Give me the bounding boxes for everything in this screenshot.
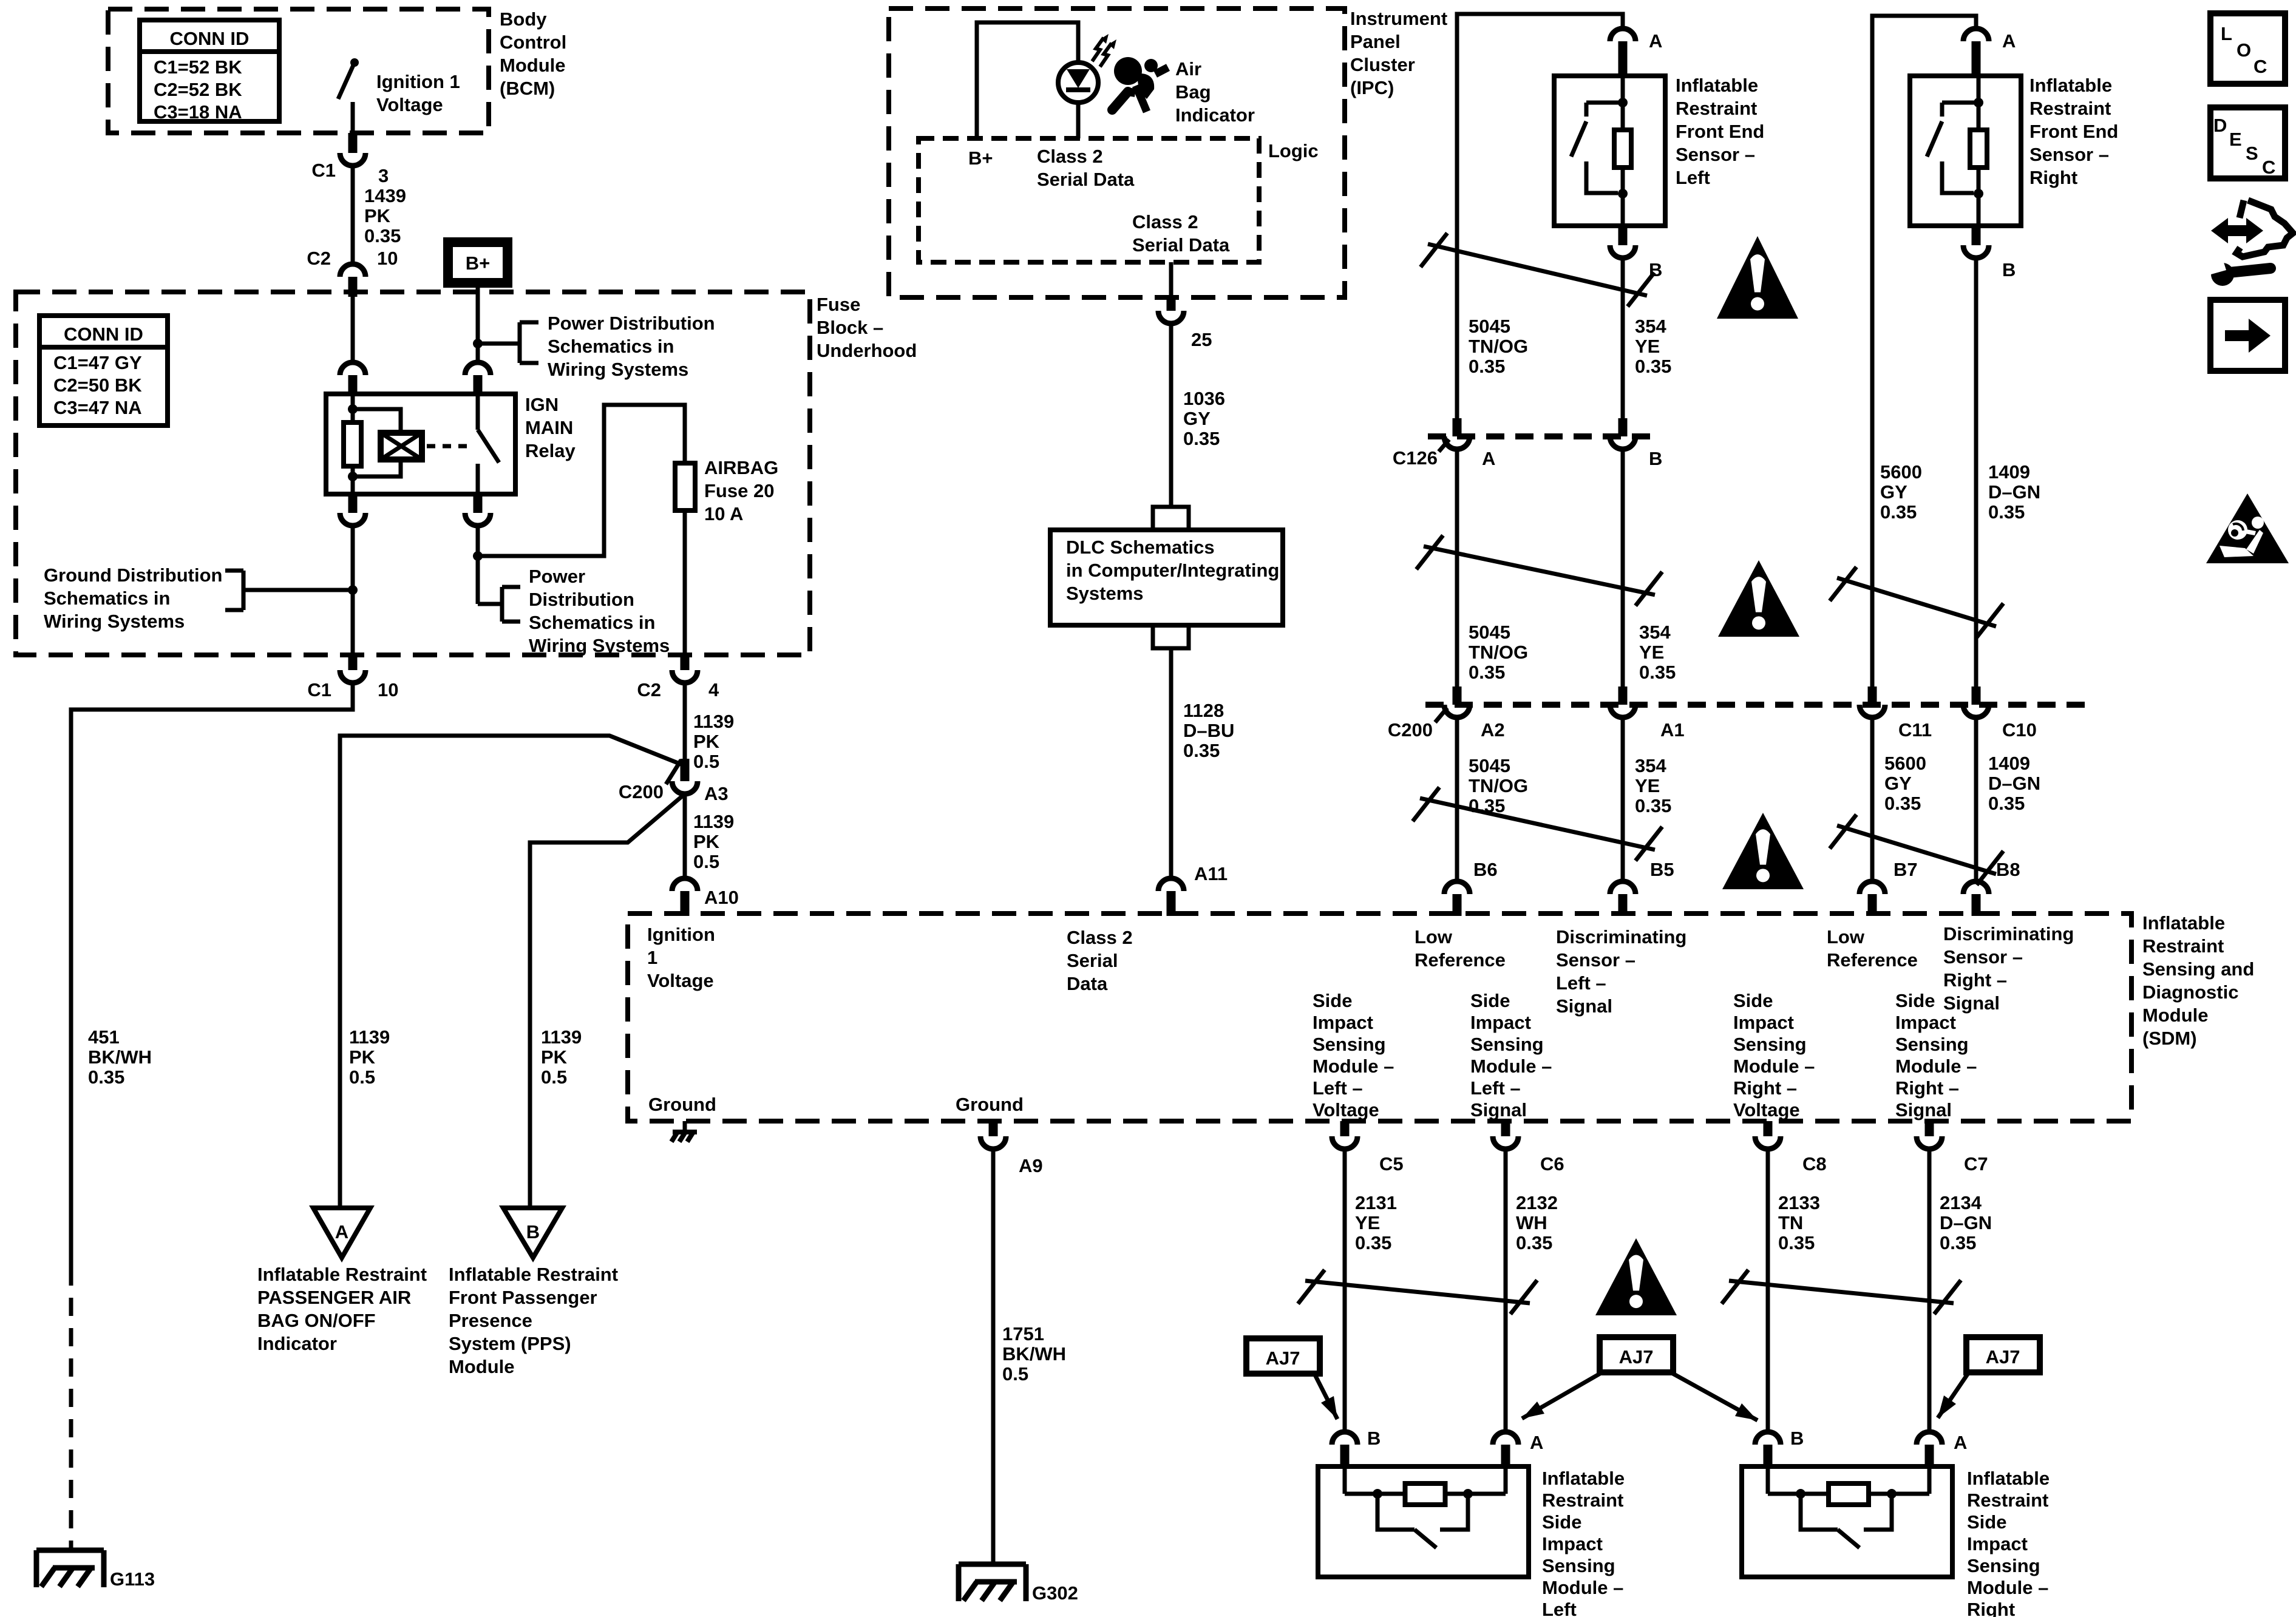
svg-text:GY: GY — [1183, 408, 1211, 429]
svg-text:in Computer/Integrating: in Computer/Integrating — [1066, 560, 1279, 581]
svg-text:Presence: Presence — [449, 1310, 532, 1331]
wire: 2133 TN 0.35 (C8 to module B) — [1766, 1149, 1770, 1431]
fuse: AIRBAG Fuse 20 10A — [675, 463, 695, 510]
svg-text:BK/WH: BK/WH — [1002, 1343, 1066, 1364]
svg-text:1139: 1139 — [693, 711, 734, 732]
svg-text:Left –: Left – — [1556, 972, 1606, 994]
svg-text:Schematics in: Schematics in — [548, 336, 674, 357]
svg-text:0.5: 0.5 — [693, 751, 719, 772]
svg-text:Right: Right — [2029, 167, 2077, 188]
svg-text:Voltage: Voltage — [376, 94, 443, 115]
svg-text:Right –: Right – — [1943, 969, 2007, 991]
label: 1409 D-GN 0.35 (upper) — [1988, 461, 2040, 523]
label C1 — [311, 160, 336, 181]
label: Inflatable Restraint PASSENGER AIR BAG ON/OFF Indicator — [257, 1264, 427, 1354]
label: 1751 BK/WH 0.5 — [1002, 1323, 1066, 1385]
label: Ground (SDM A9) — [956, 1094, 1024, 1115]
svg-text:0.5: 0.5 — [1002, 1363, 1028, 1385]
label: Ground Distribution Schematics in Wiring Systems — [44, 564, 222, 632]
label: Power Distribution Schematics in Wiring Systems (lower) — [529, 566, 670, 656]
svg-text:Restraint: Restraint — [1676, 98, 1757, 119]
label C200 (row) with leader — [1388, 708, 1447, 741]
label: Inflatable Restraint Front Passenger Presence System (PPS) Module — [449, 1264, 618, 1377]
svg-text:A9: A9 — [1019, 1155, 1043, 1176]
wire: 1036 GY 0.35 to DLC — [1169, 324, 1173, 507]
label: 1139 PK 0.5 (PPS wire) — [541, 1026, 582, 1088]
label A (right module) — [1954, 1432, 1967, 1453]
svg-text:5600: 5600 — [1884, 753, 1926, 774]
connector B of right side impact module — [1755, 1432, 1781, 1468]
svg-text:Instrument: Instrument — [1350, 8, 1447, 29]
in-line connector C200 (dashed row) — [1425, 702, 2088, 708]
label: 5045 TN/OG 0.35 (above C126) — [1469, 316, 1528, 377]
connector C7 (SDM bottom) — [1917, 1121, 1942, 1149]
svg-text:GY: GY — [1884, 773, 1912, 794]
svg-text:Left –: Left – — [1313, 1077, 1363, 1099]
connector C1 pin 10 (fuse block bottom left) — [340, 655, 365, 683]
splice callout AJ7 (middle) — [1522, 1337, 1758, 1420]
label pin A2 — [1481, 719, 1505, 741]
svg-text:354: 354 — [1639, 622, 1671, 643]
svg-text:C3=18 NA: C3=18 NA — [154, 101, 242, 123]
svg-text:Inflatable: Inflatable — [1967, 1468, 2050, 1489]
svg-text:Systems: Systems — [1066, 583, 1144, 604]
svg-text:A: A — [1954, 1432, 1967, 1453]
label: 1139 PK 0.5 (below C200) — [693, 811, 734, 872]
connector B of left front end sensor — [1610, 226, 1635, 258]
connector C200 pin A3 — [672, 759, 698, 794]
svg-text:Impact: Impact — [1470, 1012, 1531, 1033]
interrupt symbol (left module wires) — [1298, 1270, 1537, 1314]
icon: hand with arrows and wrench — [2209, 200, 2293, 286]
label: 1128 D-BU 0.35 — [1183, 700, 1234, 761]
svg-text:0.35: 0.35 — [1355, 1232, 1391, 1253]
label pin C11 — [1898, 719, 1932, 741]
svg-text:0.35: 0.35 — [1183, 428, 1220, 449]
svg-text:0.35: 0.35 — [1884, 793, 1921, 814]
svg-text:Discriminating: Discriminating — [1943, 923, 2074, 944]
svg-text:C1=47 GY: C1=47 GY — [53, 352, 142, 373]
wire branch to PPS module — [530, 794, 685, 1208]
reference pointer: Power Distribution Schematics in Wiring Systems (top) — [478, 322, 538, 363]
svg-text:Reference: Reference — [1827, 949, 1918, 971]
svg-text:Ground Distribution: Ground Distribution — [44, 564, 222, 586]
svg-text:PK: PK — [349, 1046, 376, 1068]
svg-text:TN/OG: TN/OG — [1469, 775, 1528, 796]
connector: relay output (bottom right) — [465, 494, 491, 526]
label C126 with leader — [1393, 439, 1449, 469]
connector A10 into SDM — [672, 878, 698, 916]
component: Inflatable Restraint Side Impact Sensing Module - Left — [1318, 1466, 1529, 1577]
svg-text:B+: B+ — [968, 147, 993, 169]
label C6 — [1540, 1153, 1564, 1175]
svg-text:0.35: 0.35 — [1940, 1232, 1976, 1253]
svg-text:5600: 5600 — [1880, 461, 1922, 483]
svg-text:A: A — [1649, 30, 1662, 52]
wire: 1409 from C200-C10 to SDM B8 — [1974, 717, 1978, 881]
svg-text:Data: Data — [1067, 973, 1108, 994]
svg-text:Ground: Ground — [956, 1094, 1024, 1115]
wire branch to passenger airbag indicator — [340, 736, 682, 1208]
wire: 354 from C126-B to C200-A1 — [1621, 449, 1625, 686]
junction dot on B+ wire — [473, 339, 483, 348]
label: Class 2 Serial Data (logic top) — [1037, 146, 1135, 190]
svg-text:Bag: Bag — [1175, 81, 1211, 103]
svg-text:Inflatable Restraint: Inflatable Restraint — [257, 1264, 427, 1285]
svg-text:Right –: Right – — [1733, 1077, 1797, 1099]
svg-text:D–GN: D–GN — [1988, 481, 2040, 503]
interrupt symbol (between C126 and C200) — [1416, 535, 1662, 606]
icon: LOC box — [2210, 13, 2285, 84]
svg-text:Relay: Relay — [525, 440, 576, 461]
connector A of right front end sensor — [1963, 29, 1989, 77]
svg-text:MAIN: MAIN — [525, 417, 573, 438]
connector-ID table CONN ID (BCM C1/C2/C3) — [140, 20, 279, 123]
label pin 3 — [378, 165, 389, 186]
svg-text:1409: 1409 — [1988, 461, 2030, 483]
relay coil bracket — [353, 409, 401, 476]
LED light arrows — [1092, 34, 1116, 67]
svg-text:Side: Side — [1313, 990, 1352, 1011]
svg-text:WH: WH — [1516, 1212, 1547, 1233]
label C2 (bottom) — [637, 679, 661, 700]
svg-text:AJ7: AJ7 — [1266, 1347, 1300, 1369]
relay coil wire and junctions — [348, 394, 358, 494]
svg-text:B6: B6 — [1473, 859, 1498, 880]
in-line connector C126 (dashed) — [1428, 433, 1653, 439]
wire: 1139 PK 0.5 from C200 to SDM A10 — [683, 794, 687, 878]
svg-text:C: C — [2254, 56, 2267, 77]
label B8 — [1996, 859, 2020, 880]
svg-text:L: L — [2221, 23, 2232, 44]
component: Inflatable Restraint Side Impact Sensing Module - Right — [1742, 1466, 1952, 1577]
svg-text:Sensing: Sensing — [1967, 1555, 2040, 1576]
svg-text:0.35: 0.35 — [1988, 501, 2025, 523]
svg-text:B+: B+ — [466, 253, 491, 274]
svg-text:Indicator: Indicator — [257, 1333, 337, 1354]
svg-text:C200: C200 — [1388, 719, 1433, 741]
svg-text:BAG ON/OFF: BAG ON/OFF — [257, 1310, 376, 1331]
label: 2131 YE 0.35 — [1355, 1192, 1397, 1253]
svg-text:0.35: 0.35 — [364, 225, 401, 246]
connector B of left side impact module — [1332, 1432, 1357, 1468]
svg-text:Impact: Impact — [1733, 1012, 1794, 1033]
label: 451 BK/WH 0.35 — [88, 1026, 152, 1088]
reference pointer: Power Distribution Schematics in Wiring Systems (lower) — [478, 587, 520, 622]
svg-text:0.35: 0.35 — [1469, 356, 1505, 377]
label A10 — [704, 887, 739, 908]
splice callout AJ7 (left) — [1246, 1338, 1337, 1419]
interrupt symbol (right module wires) — [1722, 1270, 1961, 1314]
svg-text:C5: C5 — [1379, 1153, 1404, 1175]
splice callout AJ7 (right) — [1938, 1337, 2040, 1418]
svg-text:0.5: 0.5 — [349, 1066, 375, 1088]
svg-text:D–GN: D–GN — [1940, 1212, 1992, 1233]
svg-text:Front End: Front End — [1676, 121, 1764, 142]
svg-text:0.5: 0.5 — [541, 1066, 567, 1088]
svg-text:C1: C1 — [307, 679, 331, 700]
label A (left module) — [1530, 1432, 1543, 1453]
wire: 1409 D-GN from sensor B down — [1974, 258, 1978, 686]
svg-text:DLC Schematics: DLC Schematics — [1066, 537, 1215, 558]
connector: relay contact terminal (top right) — [465, 362, 491, 395]
wire: 1139 PK 0.5 from C2 to C200 — [683, 683, 687, 759]
svg-text:(BCM): (BCM) — [500, 78, 555, 99]
DLC schematics box — [1050, 530, 1283, 625]
svg-text:Impact: Impact — [1542, 1533, 1603, 1554]
svg-text:Inflatable: Inflatable — [2029, 75, 2112, 96]
svg-text:Module –: Module – — [1895, 1056, 1977, 1077]
ground G113 — [36, 1550, 104, 1587]
indicator LED circle with diode — [1058, 63, 1098, 103]
svg-text:354: 354 — [1635, 316, 1666, 337]
svg-text:Logic: Logic — [1268, 140, 1319, 161]
svg-text:Signal: Signal — [1895, 1099, 1952, 1120]
connector B7 into SDM — [1860, 881, 1885, 916]
relay box: IGN MAIN Relay — [326, 394, 515, 494]
svg-text:E: E — [2229, 129, 2242, 150]
svg-text:2132: 2132 — [1516, 1192, 1558, 1213]
svg-text:Power: Power — [529, 566, 585, 587]
label B (right sensor) — [2002, 259, 2016, 280]
svg-text:C2=52 BK: C2=52 BK — [154, 79, 242, 100]
dashed actuator linkage — [427, 444, 469, 449]
svg-text:Power Distribution: Power Distribution — [548, 313, 715, 334]
label: 1139 PK 0.5 (above C200) — [693, 711, 734, 772]
svg-text:Side: Side — [1967, 1511, 2006, 1533]
svg-text:A1: A1 — [1660, 719, 1685, 741]
svg-text:C11: C11 — [1898, 719, 1932, 741]
switch: relay contact — [478, 394, 499, 494]
label: 354 YE 0.35 (below C126) — [1639, 622, 1676, 683]
svg-text:Sensing: Sensing — [1733, 1034, 1807, 1055]
svg-text:G113: G113 — [110, 1568, 155, 1590]
svg-text:Module: Module — [500, 55, 566, 76]
svg-text:354: 354 — [1635, 755, 1666, 776]
resistor: relay coil element — [344, 422, 361, 466]
svg-text:Fuse: Fuse — [817, 294, 860, 315]
connector C2 pin 10 (into Fuse Block) — [340, 264, 365, 297]
svg-text:A3: A3 — [704, 783, 729, 804]
svg-text:3: 3 — [378, 165, 389, 186]
label: 1036 GY 0.35 — [1183, 388, 1225, 449]
interrupt symbol (left pair above SDM) — [1413, 787, 1662, 861]
label: Ground (SDM left) — [648, 1094, 716, 1115]
svg-text:10 A: 10 A — [704, 503, 743, 524]
svg-text:Panel: Panel — [1350, 31, 1401, 52]
svg-text:B: B — [2002, 259, 2016, 280]
label: 1439 PK 0.35 — [364, 185, 406, 246]
svg-text:Wiring Systems: Wiring Systems — [44, 611, 185, 632]
svg-text:Sensor –: Sensor – — [2029, 144, 2109, 165]
module box: Fuse Block - Underhood, dashed outline — [16, 292, 810, 655]
label A11 — [1194, 863, 1228, 884]
svg-text:Class 2: Class 2 — [1037, 146, 1103, 167]
svg-text:0.5: 0.5 — [693, 851, 719, 872]
svg-text:Inflatable: Inflatable — [1676, 75, 1758, 96]
label: Inflatable Restraint Front End Sensor - Right — [2029, 75, 2118, 188]
interrupt symbol (right sensor wires) — [1830, 567, 2003, 637]
label: DLC Schematics in Computer/Integrating Systems — [1066, 537, 1279, 604]
svg-text:5045: 5045 — [1469, 622, 1510, 643]
label: Side Impact Sensing Module - Right - Voltage (pin C8) — [1733, 990, 1815, 1120]
svg-text:Sensing: Sensing — [1895, 1034, 1969, 1055]
connector B6 into SDM — [1444, 881, 1470, 916]
svg-text:Body: Body — [500, 8, 547, 30]
svg-text:Side: Side — [1542, 1511, 1581, 1533]
svg-text:Underhood: Underhood — [817, 340, 917, 361]
svg-text:1139: 1139 — [693, 811, 734, 832]
label: Ignition 1 Voltage — [376, 71, 460, 115]
svg-text:1439: 1439 — [364, 185, 406, 206]
svg-text:Side: Side — [1470, 990, 1510, 1011]
label A (left sensor) — [1649, 30, 1662, 52]
label B (right module) — [1790, 1428, 1804, 1449]
svg-text:TN/OG: TN/OG — [1469, 336, 1528, 357]
svg-text:Module –: Module – — [1542, 1577, 1623, 1598]
solenoid X-box of relay — [381, 433, 422, 459]
svg-text:5045: 5045 — [1469, 316, 1510, 337]
svg-text:C126: C126 — [1393, 447, 1438, 469]
off-page connector triangle B — [503, 1208, 562, 1258]
svg-text:25: 25 — [1191, 329, 1212, 350]
svg-text:Module –: Module – — [1733, 1056, 1815, 1077]
svg-text:Fuse 20: Fuse 20 — [704, 480, 774, 501]
label: AIRBAG Fuse 20 10 A — [704, 457, 778, 524]
wire: fuse output to fuse block edge — [683, 510, 687, 655]
svg-text:1128: 1128 — [1183, 700, 1224, 721]
svg-text:Indicator: Indicator — [1175, 104, 1255, 126]
label pin A (C126) — [1482, 448, 1495, 469]
wire: relay output to AIRBAG fuse riser — [473, 405, 685, 604]
svg-text:C10: C10 — [2002, 719, 2037, 741]
svg-text:YE: YE — [1635, 775, 1660, 796]
label: Side Impact Sensing Module - Left - Signal (pin C6) — [1470, 990, 1552, 1120]
svg-text:Left: Left — [1676, 167, 1710, 188]
module box: Inflatable Restraint Sensing and Diagnostic Module (SDM) — [628, 914, 2131, 1121]
svg-text:A: A — [335, 1221, 348, 1242]
label C1 (bottom) — [307, 679, 331, 700]
connector C200 pin A1 — [1610, 686, 1635, 717]
svg-text:A: A — [1482, 448, 1495, 469]
svg-text:1139: 1139 — [541, 1026, 582, 1048]
label G113 — [110, 1568, 155, 1590]
svg-text:C8: C8 — [1802, 1153, 1827, 1175]
label: Low Reference (SDM pin B7) — [1827, 926, 1918, 971]
label: 1139 PK 0.5 (indicator wire) — [349, 1026, 390, 1088]
svg-text:0.35: 0.35 — [1778, 1232, 1815, 1253]
svg-text:O: O — [2237, 39, 2251, 61]
svg-text:Voltage: Voltage — [647, 970, 714, 991]
svg-text:Ignition: Ignition — [647, 924, 715, 945]
logic box (dashed) inside IPC — [919, 138, 1259, 262]
svg-text:System (PPS): System (PPS) — [449, 1333, 571, 1354]
connector A of right side impact module — [1917, 1432, 1942, 1468]
label: Inflatable Restraint Side Impact Sensing Module - Right — [1967, 1468, 2050, 1617]
svg-text:Control: Control — [500, 32, 566, 53]
module box: Body Control Module (BCM), dashed outline — [108, 9, 489, 133]
ground G302 — [959, 1564, 1026, 1601]
svg-text:GY: GY — [1880, 481, 1907, 503]
svg-text:D–BU: D–BU — [1183, 720, 1234, 741]
svg-text:Inflatable Restraint: Inflatable Restraint — [449, 1264, 618, 1285]
svg-text:B7: B7 — [1894, 859, 1918, 880]
svg-text:Right –: Right – — [1895, 1077, 1959, 1099]
connector C200 pin A2 — [1444, 686, 1470, 717]
svg-text:Block –: Block – — [817, 317, 883, 338]
svg-text:Sensor –: Sensor – — [1943, 946, 2023, 968]
label B6 — [1473, 859, 1498, 880]
connector C200 pin C10 — [1963, 686, 1989, 717]
warning triangle (above SDM) — [1722, 813, 1804, 889]
label B5 — [1650, 859, 1674, 880]
svg-text:Discriminating: Discriminating — [1556, 926, 1686, 947]
svg-text:(IPC): (IPC) — [1350, 77, 1394, 98]
label A (right sensor) — [2002, 30, 2016, 52]
interrupt symbol (left sensor wires) — [1421, 233, 1654, 307]
label B7 — [1894, 859, 1918, 880]
module box: Instrument Panel Cluster (IPC), dashed outline — [889, 8, 1345, 297]
svg-text:Inflatable: Inflatable — [1542, 1468, 1625, 1489]
svg-text:2133: 2133 — [1778, 1192, 1820, 1213]
svg-text:Module: Module — [2142, 1005, 2209, 1026]
svg-text:Cluster: Cluster — [1350, 54, 1415, 75]
label pin 10 (bottom) — [378, 679, 398, 700]
label: Side Impact Sensing Module - Right - Signal (pin C7) — [1895, 990, 1977, 1120]
svg-text:Sensor –: Sensor – — [1676, 144, 1755, 165]
svg-text:CONN ID: CONN ID — [170, 28, 250, 49]
svg-text:B: B — [526, 1221, 540, 1242]
svg-text:B: B — [1790, 1428, 1804, 1449]
label: Inflatable Restraint Side Impact Sensing Module - Left — [1542, 1468, 1625, 1617]
wire: sensor-right harness bracket — [1872, 16, 1976, 686]
svg-text:Restraint: Restraint — [1542, 1490, 1623, 1511]
label: Logic — [1268, 140, 1319, 161]
label: Power Distribution Schematics in Wiring Systems (top) — [548, 313, 715, 380]
label: 2134 D-GN 0.35 — [1940, 1192, 1992, 1253]
svg-text:Module –: Module – — [1470, 1056, 1552, 1077]
svg-text:Class 2: Class 2 — [1132, 211, 1198, 232]
svg-text:Left: Left — [1542, 1599, 1577, 1617]
svg-text:G302: G302 — [1032, 1582, 1078, 1604]
svg-text:Side: Side — [1895, 990, 1935, 1011]
svg-text:Ignition 1: Ignition 1 — [376, 71, 460, 92]
wire: 2134 D-GN 0.35 (C7 to module A) — [1927, 1149, 1932, 1431]
wire: 1439 into relay coil — [351, 297, 355, 362]
label: Ignition 1 Voltage (SDM pin A10) — [647, 924, 715, 991]
connector A9 (SDM ground) — [980, 1121, 1006, 1149]
svg-text:Sensing: Sensing — [1313, 1034, 1386, 1055]
svg-text:A10: A10 — [704, 887, 739, 908]
svg-text:Low: Low — [1415, 926, 1453, 947]
svg-text:Voltage: Voltage — [1733, 1099, 1800, 1120]
svg-text:Signal: Signal — [1470, 1099, 1527, 1120]
label C200 with leader — [619, 760, 681, 802]
svg-text:1036: 1036 — [1183, 388, 1225, 409]
component: Inflatable Restraint Front End Sensor - Right — [1910, 76, 2021, 226]
svg-text:0.35: 0.35 — [1988, 793, 2025, 814]
connector C200 pin C11 — [1860, 686, 1885, 717]
label: Fuse Block - Underhood — [817, 294, 917, 361]
label: 5600 GY 0.35 (upper) — [1880, 461, 1922, 523]
svg-text:S: S — [2246, 143, 2258, 164]
ground stub at SDM left — [671, 1121, 697, 1142]
warning triangle (front sensors) — [1717, 236, 1798, 319]
label: 5045 TN/OG 0.35 (below C126) — [1469, 622, 1528, 683]
svg-text:TN: TN — [1778, 1212, 1803, 1233]
svg-text:B: B — [1649, 448, 1662, 469]
wire: indicator feed bracket — [977, 22, 1078, 138]
